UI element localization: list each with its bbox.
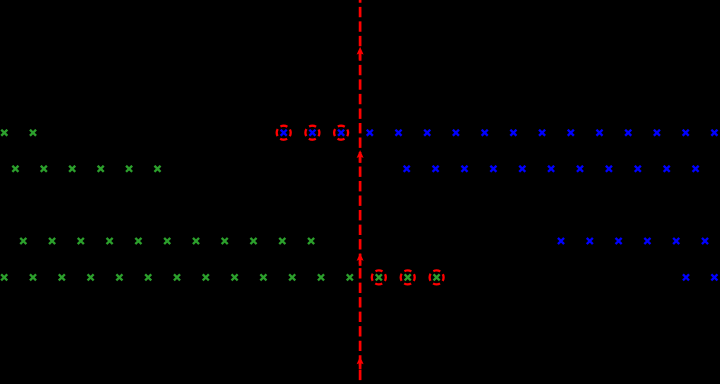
arrow 3 on boundary (357, 253, 364, 266)
row 2 blue class markers (404, 166, 699, 172)
arrow 2 on boundary (357, 150, 364, 163)
arrow 1 on boundary (357, 47, 364, 60)
row 4 green class markers (1, 274, 353, 280)
row 2 green class markers (12, 166, 160, 172)
row 1 blue class markers (367, 130, 718, 136)
row 3 blue class markers (558, 238, 708, 244)
row 4 circled green support vectors (372, 270, 444, 284)
row 1 green class markers (1, 130, 36, 136)
row 3 green class markers (20, 238, 314, 244)
row 1 circled blue support vectors (277, 126, 348, 140)
decision boundary dashed line (359, 0, 362, 384)
row 4 blue class markers (683, 274, 718, 280)
arrow 4 on boundary (357, 356, 364, 369)
